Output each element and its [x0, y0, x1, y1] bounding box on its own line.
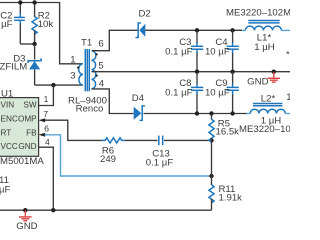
- pin 1 label: [44, 94, 49, 104]
- capacitor C8: [165, 72, 203, 114]
- wire T1 pin 6 up to D2 row: [92, 30, 139, 50]
- svg-text:1 µH: 1 µH: [254, 42, 275, 53]
- wire top rail to T1 pin 1: [0, 3, 83, 64]
- svg-text:GND: GND: [247, 76, 268, 87]
- wire C13 to R5 bottom node: [164, 139, 212, 141]
- svg-text:GND: GND: [16, 221, 37, 230]
- pin 6 FB arrow: [39, 133, 46, 137]
- junction dot R2 top: [32, 0, 36, 4]
- svg-text:*: *: [286, 50, 290, 61]
- wire D3 to T1 pin 3: [35, 84, 83, 86]
- capacitor C13: [146, 136, 174, 169]
- svg-text:L2*: L2*: [261, 93, 276, 104]
- pin 4 label: [45, 137, 50, 147]
- op-amp U1 regulator box: [0, 88, 39, 156]
- zener diode D3: [0, 44, 41, 85]
- wire FB blue to divider node: [45, 135, 212, 176]
- svg-text:4: 4: [45, 137, 50, 147]
- inductor L2: [247, 93, 291, 126]
- svg-text:1.91k: 1.91k: [219, 193, 243, 204]
- wire D2 to L1: [145, 29, 242, 31]
- zener diode D2: [136, 9, 151, 38]
- svg-text:10 µF: 10 µF: [205, 87, 230, 98]
- svg-text:Renco: Renco: [76, 103, 104, 114]
- pin 6 label: [44, 123, 49, 133]
- svg-text:3: 3: [70, 71, 75, 82]
- junction dot C2 top: [18, 0, 22, 4]
- junction dot C2/R2 bottom: [32, 42, 36, 46]
- value label M5001MA: [0, 156, 44, 167]
- wire COMP to R6: [45, 120, 102, 140]
- wire bottom ground rail: [0, 209, 212, 211]
- value label ME3220-102M: [226, 8, 291, 19]
- svg-text:U1: U1: [1, 88, 13, 99]
- svg-text:6: 6: [98, 38, 103, 49]
- mark cut right edge: [286, 50, 290, 61]
- svg-text:SW: SW: [23, 100, 36, 109]
- svg-text:1: 1: [44, 94, 49, 104]
- svg-text:249: 249: [100, 154, 116, 165]
- svg-text:0.1 µF: 0.1 µF: [165, 87, 193, 98]
- wire GND pin to rail: [39, 147, 54, 210]
- ground symbol bottom: [16, 210, 37, 232]
- zener diode D4: [132, 93, 145, 120]
- svg-text:ME3220–102: ME3220–102: [239, 124, 290, 135]
- pin 7 label: [43, 109, 48, 119]
- junction dot C3 top: [195, 28, 199, 32]
- junction dot R5 top: [209, 111, 213, 115]
- resistor R2: [32, 3, 53, 45]
- junction dot rail GND: [23, 208, 27, 212]
- wire mid ground rail T1 pin 5: [92, 71, 291, 73]
- svg-text:6: 6: [44, 123, 49, 133]
- ground symbol mid: [247, 72, 280, 88]
- svg-text:EN: EN: [1, 115, 12, 124]
- svg-text:7: 7: [43, 109, 48, 119]
- wire D4 to L2: [144, 113, 247, 115]
- svg-text:1: 1: [70, 55, 75, 66]
- wire R6 to C13: [125, 139, 158, 141]
- svg-text:16.5k: 16.5k: [216, 127, 240, 138]
- capacitor C2: [0, 3, 25, 45]
- resistor R11: [209, 176, 242, 210]
- resistor R5: [209, 114, 239, 143]
- junction dot C4 top: [230, 28, 234, 32]
- svg-text:RT: RT: [1, 129, 12, 138]
- svg-text:T1: T1: [81, 37, 92, 48]
- svg-text:VCC: VCC: [1, 142, 18, 151]
- junction dot rail U1 gnd: [51, 208, 55, 212]
- junction dot mid gnd: [272, 70, 276, 74]
- wire comp node to FB node: [211, 140, 213, 176]
- svg-text:GND: GND: [18, 142, 36, 151]
- capacitor C11 label: [0, 175, 11, 196]
- resistor R6: [100, 138, 125, 165]
- svg-text:0.1 µF: 0.1 µF: [0, 19, 13, 30]
- junction dot C9 bottom: [230, 111, 234, 115]
- capacitor C4: [205, 30, 239, 71]
- capacitor C9: [205, 72, 239, 114]
- svg-text:D2: D2: [139, 9, 151, 20]
- svg-text:VIN: VIN: [1, 100, 15, 109]
- value label ME3220-102: [239, 124, 296, 135]
- svg-text:10k: 10k: [38, 19, 54, 30]
- svg-text:µF: µF: [0, 184, 11, 195]
- svg-text:COMP: COMP: [12, 115, 37, 124]
- svg-text:D4: D4: [132, 93, 145, 104]
- pin 7 COMP arrow: [39, 118, 46, 122]
- svg-text:4: 4: [99, 78, 105, 89]
- junction dot C3 bottom: [195, 70, 199, 74]
- svg-text:ZFILM: ZFILM: [0, 62, 27, 73]
- junction dot node SW: [51, 83, 55, 87]
- junction dot C4 bottom: [230, 70, 234, 74]
- transformer T1: [68, 37, 107, 114]
- svg-text:FB: FB: [26, 129, 37, 138]
- svg-text:5: 5: [98, 60, 103, 71]
- svg-text:M5001MA: M5001MA: [0, 156, 44, 167]
- junction dot FB node: [209, 174, 213, 178]
- wire C2 bottom to node: [20, 43, 34, 45]
- svg-text:0.1 µF: 0.1 µF: [146, 158, 174, 169]
- label cut right edge: [286, 92, 291, 103]
- svg-text:10 µF: 10 µF: [205, 47, 230, 58]
- svg-text:0.1 µF: 0.1 µF: [165, 47, 193, 58]
- inductor L1: [242, 21, 290, 53]
- wire SW pin to node: [39, 85, 54, 105]
- svg-text:ME3220–102M: ME3220–102M: [226, 8, 290, 19]
- wire T1 pin 4 down to D4: [92, 89, 134, 114]
- capacitor C3: [165, 30, 203, 71]
- svg-text:1: 1: [286, 92, 290, 103]
- junction dot comp node: [209, 138, 213, 142]
- junction dot C8 bottom: [195, 111, 199, 115]
